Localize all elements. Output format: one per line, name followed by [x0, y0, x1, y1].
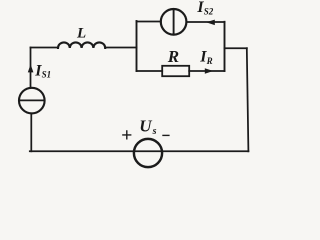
resistor R body	[162, 66, 189, 76]
wire resistor branch left lead	[137, 70, 163, 72]
current source IS2 body	[161, 9, 187, 35]
svg-text:s: s	[152, 126, 157, 137]
node bar right (junction of parallel branches)	[224, 22, 226, 71]
inductor L coil	[58, 42, 105, 48]
wire top branch left segment	[137, 21, 161, 23]
voltage source Us circle	[134, 139, 162, 167]
wire right outer vertical	[247, 48, 249, 151]
arrow IR current direction (right)	[205, 68, 213, 73]
wire middle connector right	[225, 47, 247, 49]
current source IS2 internal bar	[173, 9, 175, 35]
wire top branch right segment	[186, 21, 224, 23]
wire bottom horizontal	[30, 150, 249, 152]
wire left vertical upper	[30, 48, 32, 89]
node bar left (junction of parallel branches)	[136, 21, 138, 71]
wire resistor branch right lead	[189, 70, 224, 72]
svg-text:L: L	[76, 25, 86, 41]
svg-text:S2: S2	[204, 6, 214, 16]
svg-text:R: R	[167, 47, 179, 66]
svg-text:S1: S1	[42, 70, 52, 80]
arrow IS1 current direction (up)	[28, 64, 34, 72]
current source IS1 body	[19, 88, 45, 114]
wire top-left horizontal with inductor gap	[31, 47, 59, 49]
current source IS1 internal bar	[19, 99, 45, 101]
paper background	[0, 0, 275, 171]
svg-text:R: R	[206, 56, 213, 66]
wire left vertical lower	[30, 113, 32, 151]
svg-text:U: U	[139, 117, 152, 136]
polarity minus sign	[162, 134, 169, 136]
wire inductor to left node bar	[105, 47, 136, 49]
polarity plus sign	[122, 130, 131, 139]
arrow IS2 current direction (left)	[206, 20, 215, 26]
